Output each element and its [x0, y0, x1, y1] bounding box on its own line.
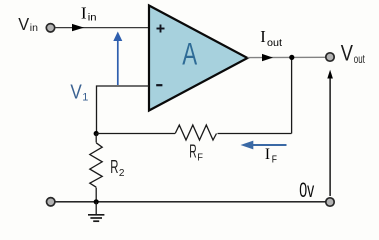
label Iin: [81, 3, 97, 23]
terminal bottom right: [326, 198, 334, 206]
terminal Vout: [326, 53, 334, 61]
wire feedback left: [96, 133, 175, 135]
label IF: [265, 146, 277, 166]
wire op-amp - input: [97, 86, 150, 134]
terminal bottom left: [47, 198, 55, 206]
op-amp U1: [149, 6, 248, 111]
wire R2 bottom stub: [95, 188, 97, 202]
arrow V1: [113, 32, 122, 86]
svg-text:out: out: [354, 52, 365, 66]
label RF: [189, 142, 203, 164]
label Vin: [18, 14, 38, 34]
svg-text:2: 2: [119, 167, 125, 179]
junction node V1/feedback: [94, 131, 99, 136]
svg-text:V: V: [70, 82, 82, 104]
svg-text:R: R: [189, 142, 196, 162]
svg-text:I: I: [81, 3, 87, 22]
svg-text:F: F: [197, 151, 203, 163]
svg-text:1: 1: [82, 92, 88, 104]
terminal Vin: [46, 24, 54, 32]
svg-text:A: A: [182, 36, 197, 71]
junction node output/feedback: [289, 55, 294, 60]
wire R2 top stub: [95, 134, 97, 143]
ground: [88, 202, 104, 221]
wire input to op-amp +: [55, 27, 149, 29]
label R2: [110, 157, 124, 179]
svg-text:in: in: [88, 12, 97, 24]
label Iout: [260, 27, 282, 49]
svg-text:V: V: [341, 40, 353, 65]
wire feedback vertical: [291, 57, 293, 133]
arrowhead Iin: [72, 24, 84, 31]
svg-text:in: in: [30, 22, 38, 34]
svg-text:0v: 0v: [299, 178, 314, 202]
junction node R2/rail: [94, 199, 99, 204]
svg-text:out: out: [267, 37, 282, 49]
pin +: [157, 25, 165, 33]
arrow IF: [241, 141, 287, 150]
svg-text:R: R: [110, 157, 118, 177]
resistor RF: [175, 125, 216, 140]
pin -: [156, 84, 162, 86]
svg-text:I: I: [265, 146, 270, 163]
wire feedback right: [218, 133, 292, 135]
arrowhead Iout: [262, 54, 273, 61]
wire output: [248, 56, 326, 58]
svg-text:I: I: [260, 27, 266, 46]
svg-text:F: F: [272, 155, 277, 166]
arrow Vout measurement: [327, 70, 333, 196]
label V1: [70, 82, 88, 104]
wire 0v rail: [55, 201, 326, 203]
label Vout: [341, 40, 365, 65]
resistor R2: [90, 143, 102, 187]
svg-text:V: V: [18, 14, 29, 34]
